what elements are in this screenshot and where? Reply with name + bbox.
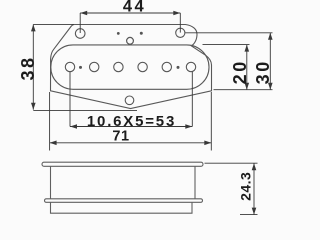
svg-text:10.6X5=53: 10.6X5=53 bbox=[87, 113, 176, 130]
svg-text:38: 38 bbox=[18, 55, 38, 80]
svg-text:71: 71 bbox=[112, 129, 129, 145]
svg-text:30: 30 bbox=[253, 59, 273, 84]
svg-text:24.3: 24.3 bbox=[238, 172, 254, 201]
svg-text:20: 20 bbox=[230, 59, 250, 84]
svg-text:44: 44 bbox=[123, 0, 146, 15]
